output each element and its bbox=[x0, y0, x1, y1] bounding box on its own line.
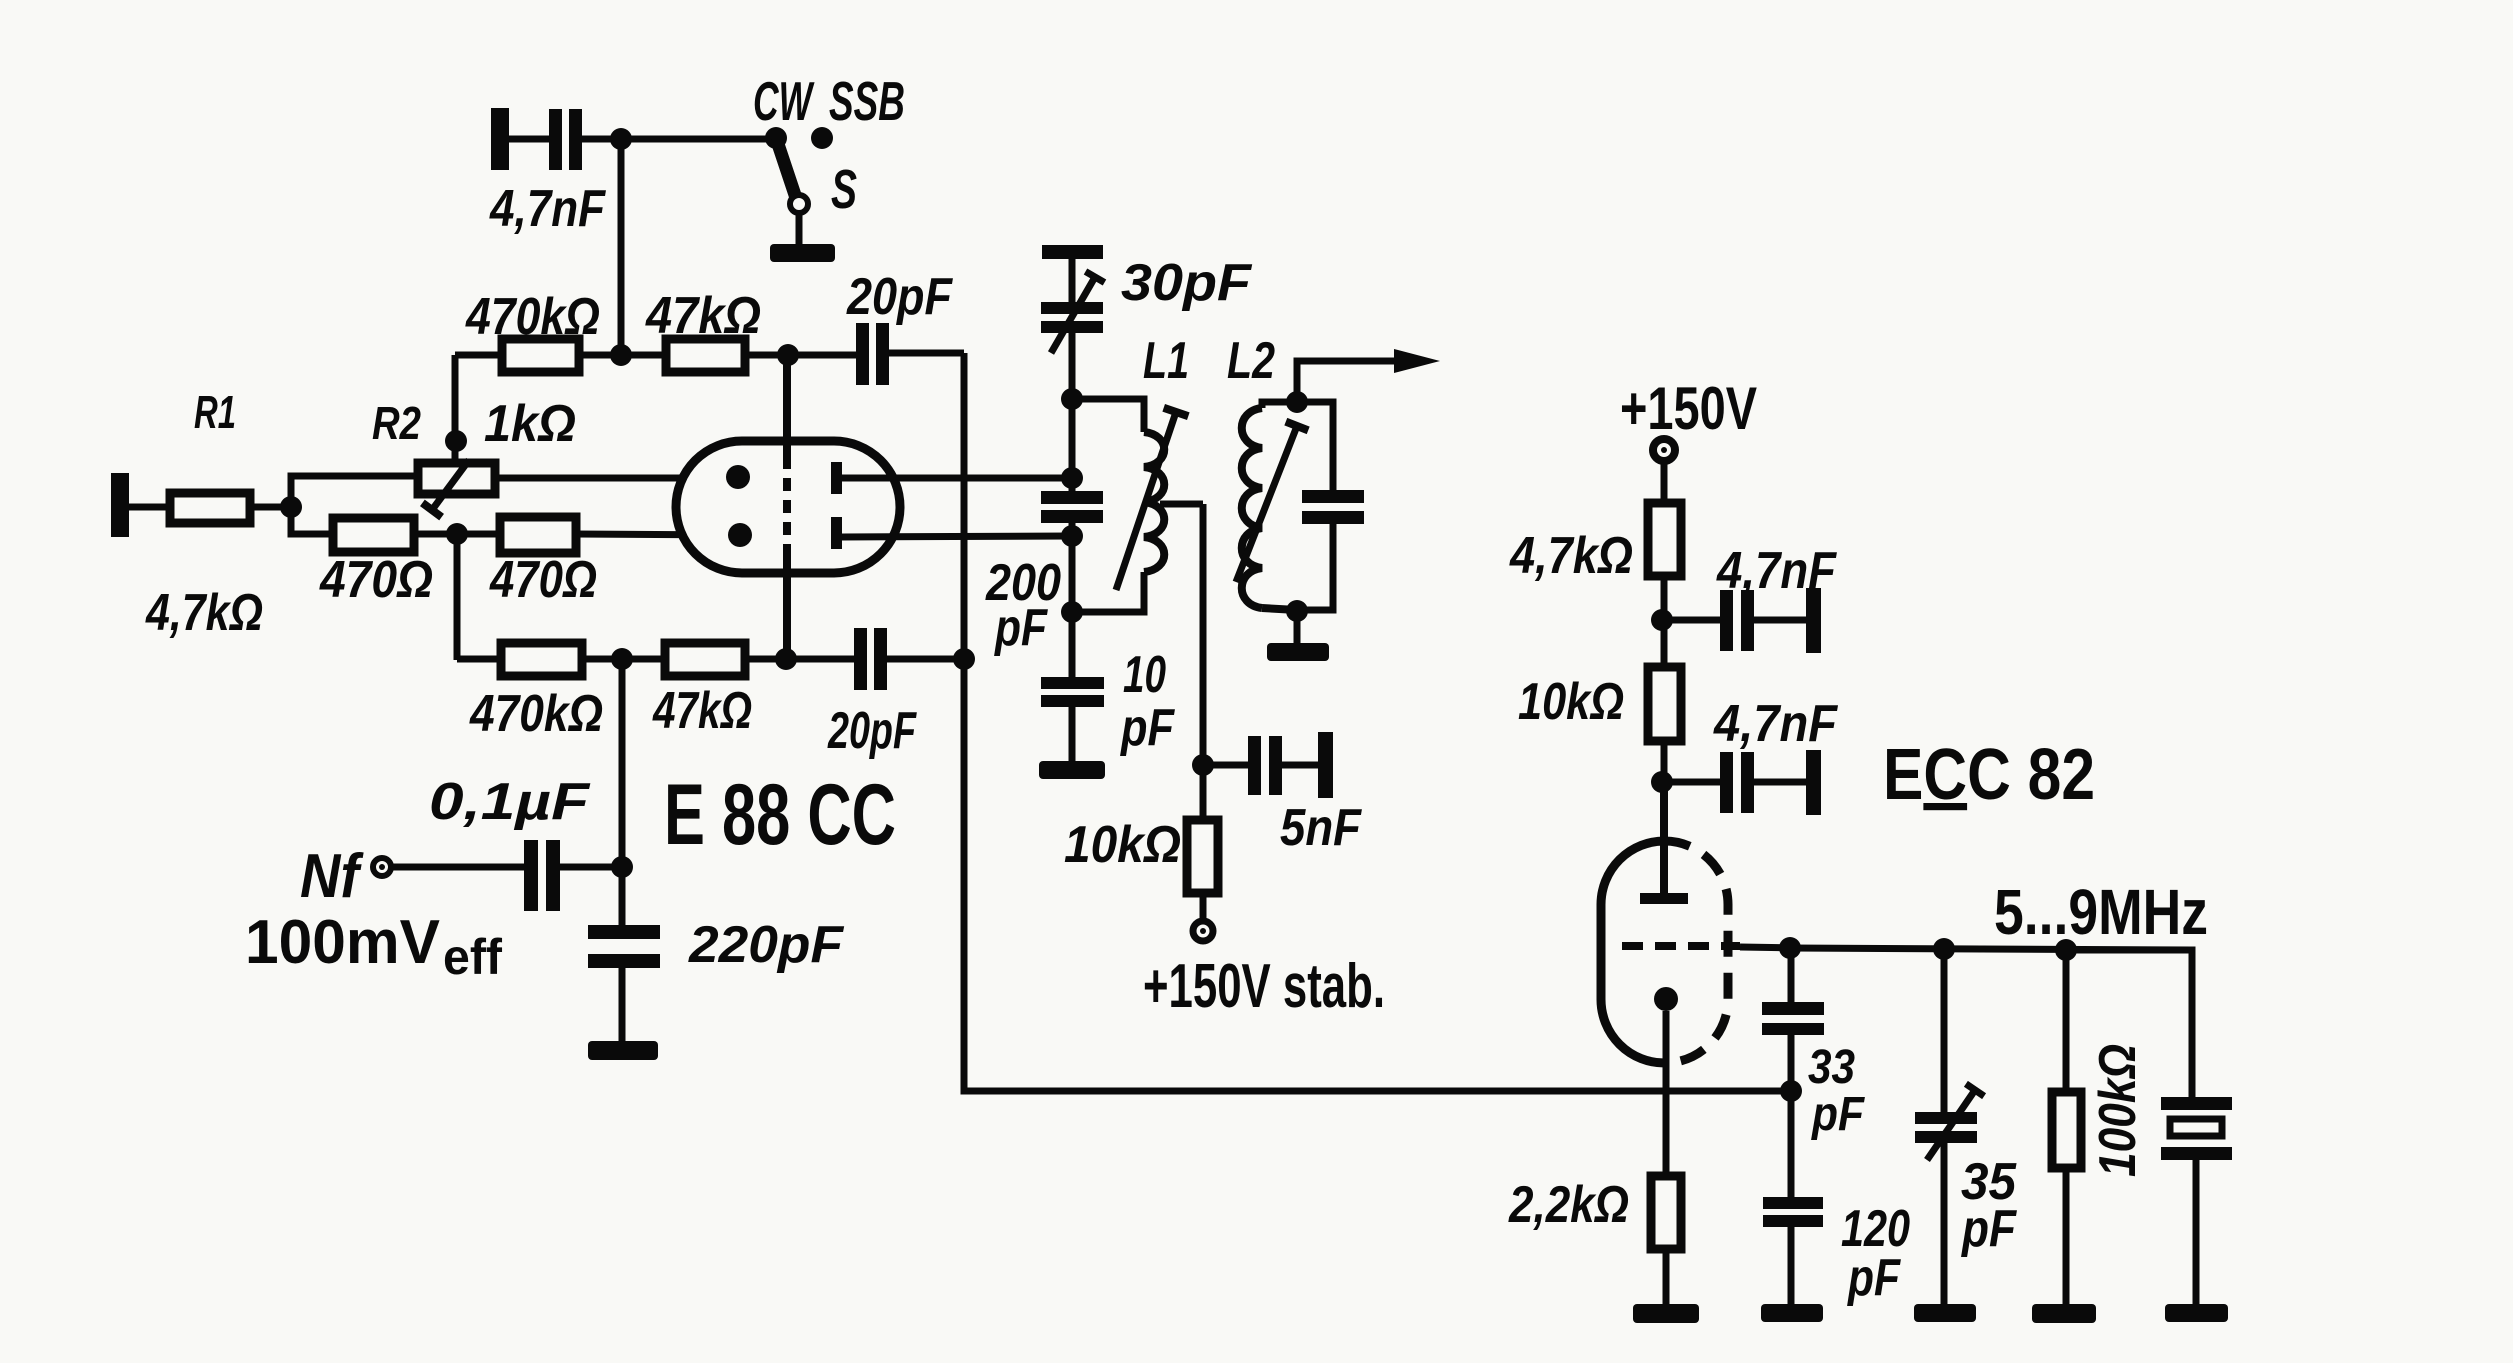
capacitor 20pF (top) plate 2 bbox=[876, 323, 889, 385]
node bbox=[1651, 609, 1673, 631]
wire bbox=[1788, 1091, 1795, 1197]
wire bbox=[250, 504, 291, 511]
tube E88CC envelope bbox=[676, 441, 900, 573]
svg-text:R1: R1 bbox=[194, 386, 236, 438]
resistor 2,2k (cathode) bbox=[1651, 1176, 1681, 1249]
ground (switch S) bbox=[770, 244, 835, 262]
wire tube bottom lead bbox=[783, 556, 791, 659]
ground (crystal) bbox=[2165, 1304, 2228, 1322]
wire to output arrow bbox=[1297, 361, 1396, 402]
crystal body bbox=[2170, 1119, 2222, 1136]
wire to 4,7nF a bbox=[1662, 617, 1720, 624]
trimmer 30pF plate 1 bbox=[1041, 302, 1103, 314]
wire feedback 20pF caps to ECC82 cathode bbox=[964, 353, 1791, 1091]
capacitor 33pF plate 2 bbox=[1762, 1023, 1824, 1035]
svg-text:5...9MHz: 5...9MHz bbox=[1994, 876, 2208, 948]
wire bbox=[1663, 1249, 1670, 1305]
svg-text:4,7kΩ: 4,7kΩ bbox=[145, 584, 263, 642]
capacitor 220pF plate 2 bbox=[588, 954, 660, 968]
svg-text:pF: pF bbox=[993, 599, 1048, 657]
svg-text:pF: pF bbox=[1810, 1088, 1865, 1141]
svg-text:1kΩ: 1kΩ bbox=[484, 395, 576, 453]
wire pivot to ground bbox=[796, 213, 803, 245]
terminal bar (4,7nF left end) bbox=[491, 108, 509, 170]
wire bbox=[582, 656, 665, 663]
switch S arm bbox=[776, 138, 797, 201]
wire L1 tap down bbox=[1200, 504, 1207, 820]
svg-text:+150V: +150V bbox=[1620, 375, 1757, 442]
crystal plate 1 bbox=[2161, 1097, 2232, 1110]
wire bbox=[2193, 1160, 2200, 1305]
ground (10pF) bbox=[1039, 761, 1105, 779]
svg-text:ECC 82: ECC 82 bbox=[1883, 735, 2095, 815]
tube ECC82 anode bbox=[1640, 893, 1688, 904]
output arrow head bbox=[1394, 349, 1440, 373]
capacitor 0,1uF plate 2 bbox=[546, 840, 560, 911]
wire to feedback riser bbox=[887, 656, 964, 663]
svg-text:4,7kΩ: 4,7kΩ bbox=[1509, 527, 1633, 585]
capacitor 220pF plate 1 bbox=[588, 925, 660, 939]
wire to 470 Ohm bbox=[291, 507, 333, 534]
svg-text:S: S bbox=[831, 158, 857, 220]
wire bbox=[1282, 762, 1318, 769]
node (tube cathode riser) bbox=[775, 648, 797, 670]
svg-text:470kΩ: 470kΩ bbox=[465, 288, 600, 346]
wire anode a to tank bbox=[842, 475, 1072, 482]
tube E88CC anode a bbox=[831, 462, 842, 494]
svg-text:33: 33 bbox=[1808, 1041, 1855, 1094]
wire to triode b grid bbox=[576, 534, 740, 535]
wire bbox=[1069, 523, 1076, 677]
node (bias divider) bbox=[446, 523, 468, 545]
inductor L1 core arrow bbox=[1116, 412, 1176, 590]
capacitor 4,7nF a plate 1 bbox=[1720, 590, 1733, 651]
resistor 10k (L1 feed) bbox=[1187, 820, 1218, 893]
node (33pF top) bbox=[1779, 937, 1801, 959]
svg-text:2,2kΩ: 2,2kΩ bbox=[1508, 1176, 1629, 1234]
switch S contact CW bbox=[765, 127, 787, 149]
svg-text:E 88 CC: E 88 CC bbox=[664, 767, 896, 863]
svg-text:Nf: Nf bbox=[300, 842, 364, 911]
wire to crystal bbox=[2066, 950, 2192, 1097]
ground (220pF) bbox=[588, 1041, 658, 1060]
inductor L1 core bar bbox=[1164, 408, 1189, 416]
capacitor 10pF plate 1 bbox=[1041, 677, 1104, 689]
ground (120pF) bbox=[1761, 1304, 1823, 1322]
svg-text:eff: eff bbox=[443, 929, 502, 985]
node (0,1uF junction) bbox=[611, 856, 633, 878]
svg-text:pF: pF bbox=[1846, 1249, 1901, 1307]
node (anode b) bbox=[1061, 525, 1083, 547]
wire bbox=[1069, 333, 1076, 491]
capacitor 20pF (bottom) plate 2 bbox=[874, 628, 887, 690]
wire supply chain bbox=[1661, 576, 1668, 841]
wire bbox=[2063, 950, 2070, 1092]
wire bbox=[1297, 524, 1333, 610]
svg-text:470Ω: 470Ω bbox=[319, 551, 433, 609]
wire riser to 220pF bbox=[619, 659, 626, 925]
resistor 47k (bottom row) bbox=[665, 643, 745, 676]
wire L1 bottom bbox=[1072, 572, 1144, 612]
wire bbox=[1788, 1035, 1795, 1091]
svg-text:47kΩ: 47kΩ bbox=[645, 287, 761, 345]
node (5nF) bbox=[1192, 754, 1214, 776]
svg-text:4,7nF: 4,7nF bbox=[1713, 695, 1838, 753]
wire bbox=[1788, 1227, 1795, 1305]
terminal bar (4,7nF b) bbox=[1806, 750, 1821, 815]
node (feedback riser) bbox=[953, 648, 975, 670]
tube ECC82 grid (dashed) bbox=[1622, 942, 1740, 950]
svg-text:CW: CW bbox=[753, 70, 815, 132]
resistor 4,7k (supply) bbox=[1648, 503, 1681, 576]
terminal bar (4,7nF a) bbox=[1806, 588, 1821, 653]
node (R2 top) bbox=[445, 430, 467, 452]
svg-text:pF: pF bbox=[1119, 699, 1175, 757]
tube ECC82 envelope (solid left) bbox=[1601, 841, 1665, 1063]
wire grid to 5...9MHz line bbox=[1740, 947, 1800, 948]
capacitor 4,7nF a plate 2 bbox=[1741, 590, 1754, 651]
R2 wiper slot line bbox=[432, 460, 469, 510]
node (L2 bottom) bbox=[1286, 600, 1308, 622]
potentiometer R2 1k body bbox=[418, 463, 495, 494]
svg-text:470kΩ: 470kΩ bbox=[469, 685, 603, 743]
trimmer 35pF plate 1 bbox=[1915, 1112, 1977, 1124]
terminal bar (input) bbox=[111, 473, 129, 537]
wire bbox=[457, 656, 501, 663]
wire to feedback riser bbox=[889, 350, 964, 357]
wire bbox=[579, 352, 666, 359]
svg-text:SSB: SSB bbox=[829, 70, 905, 132]
capacitor 33pF plate 1 bbox=[1762, 1002, 1824, 1015]
wire to switch CW contact bbox=[582, 136, 776, 143]
wire to L2 cap bbox=[1297, 402, 1333, 490]
wire bbox=[1941, 949, 1948, 1112]
wire bbox=[1661, 460, 1668, 503]
wire bbox=[2063, 1168, 2070, 1305]
node (tube grid riser) bbox=[777, 344, 799, 366]
ground (35pF) bbox=[1914, 1304, 1976, 1322]
svg-text:100kΩ: 100kΩ bbox=[2089, 1044, 2147, 1177]
resistor 100k bbox=[2052, 1092, 2081, 1168]
inductor L2 bbox=[1242, 408, 1262, 608]
capacitor 20pF (top) plate 1 bbox=[856, 323, 869, 385]
resistor R1 4,7k bbox=[170, 493, 250, 523]
capacitor 20pF (bottom) plate 1 bbox=[854, 628, 867, 690]
trimmer 30pF plate 2 bbox=[1041, 321, 1103, 333]
wire bbox=[1200, 893, 1207, 922]
svg-text:L1: L1 bbox=[1143, 332, 1189, 390]
capacitor 4,7nF b plate 2 bbox=[1741, 752, 1754, 813]
node bbox=[610, 344, 632, 366]
wire bbox=[560, 864, 622, 871]
capacitor C 4,7nF plate 2 bbox=[569, 109, 582, 170]
resistor 47k (top row) bbox=[666, 339, 745, 372]
wire bbox=[619, 968, 626, 1042]
node (30pF / L1 top) bbox=[1061, 388, 1083, 410]
wire tube top lead bbox=[1660, 782, 1668, 893]
capacitor C 4,7nF plate 1 bbox=[549, 109, 562, 170]
resistor 470k (bottom row) bbox=[501, 643, 582, 676]
node (cathode riser) bbox=[611, 648, 633, 670]
tube E88CC anode b bbox=[831, 517, 842, 549]
wire riser to bottom row bbox=[454, 534, 461, 660]
node (input split) bbox=[280, 496, 302, 518]
resistor 470 Ohm (right) bbox=[500, 517, 576, 553]
svg-text:+150V stab.: +150V stab. bbox=[1143, 952, 1385, 1021]
capacitor 200pF plate 1 bbox=[1041, 491, 1103, 504]
trimmer 35pF arrow bar bbox=[1966, 1084, 1984, 1096]
capacitor 200pF plate 2 bbox=[1041, 510, 1103, 523]
wire to 5nF bbox=[1203, 762, 1248, 769]
wire to L1 top bbox=[1072, 399, 1144, 432]
wire tube top lead bbox=[783, 355, 791, 456]
capacitor 10pF plate 2 bbox=[1041, 695, 1104, 707]
wire to ground bbox=[1294, 611, 1301, 644]
tube E88CC grid a bbox=[726, 465, 750, 489]
capacitor 120pF plate 1 bbox=[1763, 1197, 1823, 1209]
svg-text:20pF: 20pF bbox=[827, 702, 917, 760]
svg-text:100mV: 100mV bbox=[245, 908, 440, 977]
tube ECC82 cathode bbox=[1654, 987, 1678, 1011]
node (35pF) bbox=[1933, 938, 1955, 960]
wire bbox=[1941, 1143, 1948, 1305]
trimmer 30pF arrow bbox=[1051, 277, 1095, 353]
tube E88CC grid b bbox=[728, 523, 752, 547]
wire bbox=[509, 136, 549, 143]
svg-text:4,7nF: 4,7nF bbox=[489, 180, 606, 238]
wire bbox=[1069, 707, 1076, 762]
inductor L1 bbox=[1144, 432, 1164, 572]
wire bbox=[129, 504, 170, 511]
node (4,7nF / riser junction) bbox=[610, 128, 632, 150]
wire anode b to tank bbox=[842, 536, 1072, 537]
svg-text:pF: pF bbox=[1960, 1200, 2017, 1258]
wire bbox=[1788, 948, 1795, 1002]
node (L2 top) bbox=[1286, 391, 1308, 413]
crystal plate 2 bbox=[2161, 1147, 2232, 1160]
wire cathode down bbox=[1663, 1011, 1670, 1176]
wire bbox=[1754, 779, 1806, 786]
wire bbox=[745, 352, 856, 359]
R2 wiper slot bar bbox=[422, 503, 441, 517]
capacitor 0,1uF plate 1 bbox=[524, 840, 538, 911]
ground (2,2k) bbox=[1633, 1304, 1699, 1323]
trimmer 30pF arrow bar bbox=[1086, 272, 1105, 283]
node bbox=[1651, 771, 1673, 793]
node (L1 bottom) bbox=[1061, 601, 1083, 623]
inductor L2 core arrow bbox=[1236, 426, 1297, 582]
svg-text:R2: R2 bbox=[372, 397, 421, 449]
wire L2 top bbox=[1262, 402, 1297, 408]
wire bbox=[455, 352, 502, 359]
terminal Nf input bbox=[373, 858, 391, 876]
tube E88CC divider (dashed) bbox=[783, 456, 791, 556]
capacitor (L2 tank) plate 1 bbox=[1302, 490, 1364, 503]
svg-text:47kΩ: 47kΩ bbox=[652, 682, 752, 740]
node (100k) bbox=[2055, 939, 2077, 961]
svg-text:20pF: 20pF bbox=[846, 268, 953, 326]
terminal +150V bbox=[1653, 439, 1675, 461]
svg-text:5nF: 5nF bbox=[1280, 799, 1362, 857]
wire to 4,7nF b bbox=[1662, 779, 1720, 786]
wire riser to top resistor row bbox=[618, 139, 625, 356]
terminal +150V stab bbox=[1193, 921, 1213, 941]
svg-text:L2: L2 bbox=[1227, 332, 1275, 390]
terminal bar (5nF) bbox=[1318, 732, 1333, 798]
svg-text:0,1µF: 0,1µF bbox=[429, 773, 590, 831]
tube ECC82 envelope (dashed right) bbox=[1665, 841, 1729, 1063]
capacitor (L2 tank) plate 2 bbox=[1302, 511, 1364, 524]
wire L2 bottom bbox=[1262, 608, 1297, 610]
node (cathode line) bbox=[1780, 1080, 1802, 1102]
wire bbox=[745, 656, 854, 663]
svg-text:4,7nF: 4,7nF bbox=[1716, 542, 1837, 600]
wire 5...9MHz line bbox=[1790, 948, 2192, 950]
capacitor 5nF plate 2 bbox=[1269, 736, 1282, 795]
trimmer 35pF plate 2 bbox=[1915, 1131, 1977, 1143]
resistor 470k (top row) bbox=[502, 339, 579, 372]
svg-text:10kΩ: 10kΩ bbox=[1518, 673, 1624, 731]
wire bbox=[1754, 617, 1806, 624]
capacitor 4,7nF b plate 1 bbox=[1720, 752, 1733, 813]
resistor 10k (supply) bbox=[1648, 667, 1681, 741]
wire bbox=[391, 864, 524, 871]
terminal bar (30pF top) bbox=[1042, 245, 1103, 259]
resistor 470 Ohm (left) bbox=[333, 518, 414, 552]
capacitor 5nF plate 1 bbox=[1248, 736, 1261, 795]
ground (L2) bbox=[1267, 643, 1329, 661]
node (anode a) bbox=[1061, 467, 1083, 489]
svg-text:10kΩ: 10kΩ bbox=[1064, 816, 1181, 874]
switch S contact SSB bbox=[811, 127, 833, 149]
svg-text:470Ω: 470Ω bbox=[489, 551, 597, 609]
capacitor 120pF plate 2 bbox=[1763, 1215, 1823, 1227]
inductor L2 core bar bbox=[1286, 422, 1308, 431]
switch S pivot bbox=[790, 195, 808, 213]
wire bbox=[414, 531, 500, 538]
svg-text:220pF: 220pF bbox=[688, 916, 844, 974]
wire riser to R2 bbox=[452, 355, 459, 464]
wire to R2 bbox=[291, 476, 418, 507]
ground (100k) bbox=[2032, 1304, 2096, 1323]
wire L1 tap bbox=[1160, 501, 1203, 508]
svg-text:10: 10 bbox=[1123, 646, 1166, 704]
wire R2 to triode a grid bbox=[495, 475, 738, 482]
svg-text:30pF: 30pF bbox=[1121, 254, 1252, 312]
trimmer 35pF arrow bbox=[1927, 1090, 1975, 1160]
wire bbox=[1069, 259, 1076, 302]
